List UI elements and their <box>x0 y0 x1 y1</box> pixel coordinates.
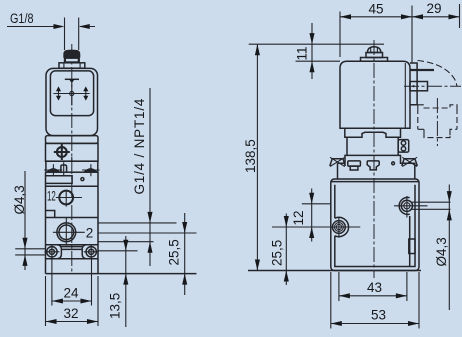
svg-text:32: 32 <box>64 306 79 321</box>
svg-text:24: 24 <box>64 286 80 301</box>
svg-text:29: 29 <box>427 1 442 16</box>
svg-text:53: 53 <box>371 308 386 323</box>
svg-text:25,5: 25,5 <box>167 239 182 265</box>
svg-text:43: 43 <box>367 280 382 295</box>
svg-text:2: 2 <box>86 226 94 241</box>
svg-text:12: 12 <box>291 210 306 225</box>
svg-text:25,5: 25,5 <box>269 240 284 266</box>
svg-text:12: 12 <box>47 189 56 204</box>
svg-text:G1/4 / NPT1/4: G1/4 / NPT1/4 <box>132 98 147 195</box>
svg-text:Ø4,3: Ø4,3 <box>434 237 449 266</box>
svg-text:G1/8: G1/8 <box>10 11 34 26</box>
svg-text:11: 11 <box>294 46 309 60</box>
svg-text:13,5: 13,5 <box>108 293 123 319</box>
svg-text:45: 45 <box>369 2 384 17</box>
svg-text:Ø4,3: Ø4,3 <box>12 185 27 214</box>
svg-text:138,5: 138,5 <box>243 139 258 173</box>
